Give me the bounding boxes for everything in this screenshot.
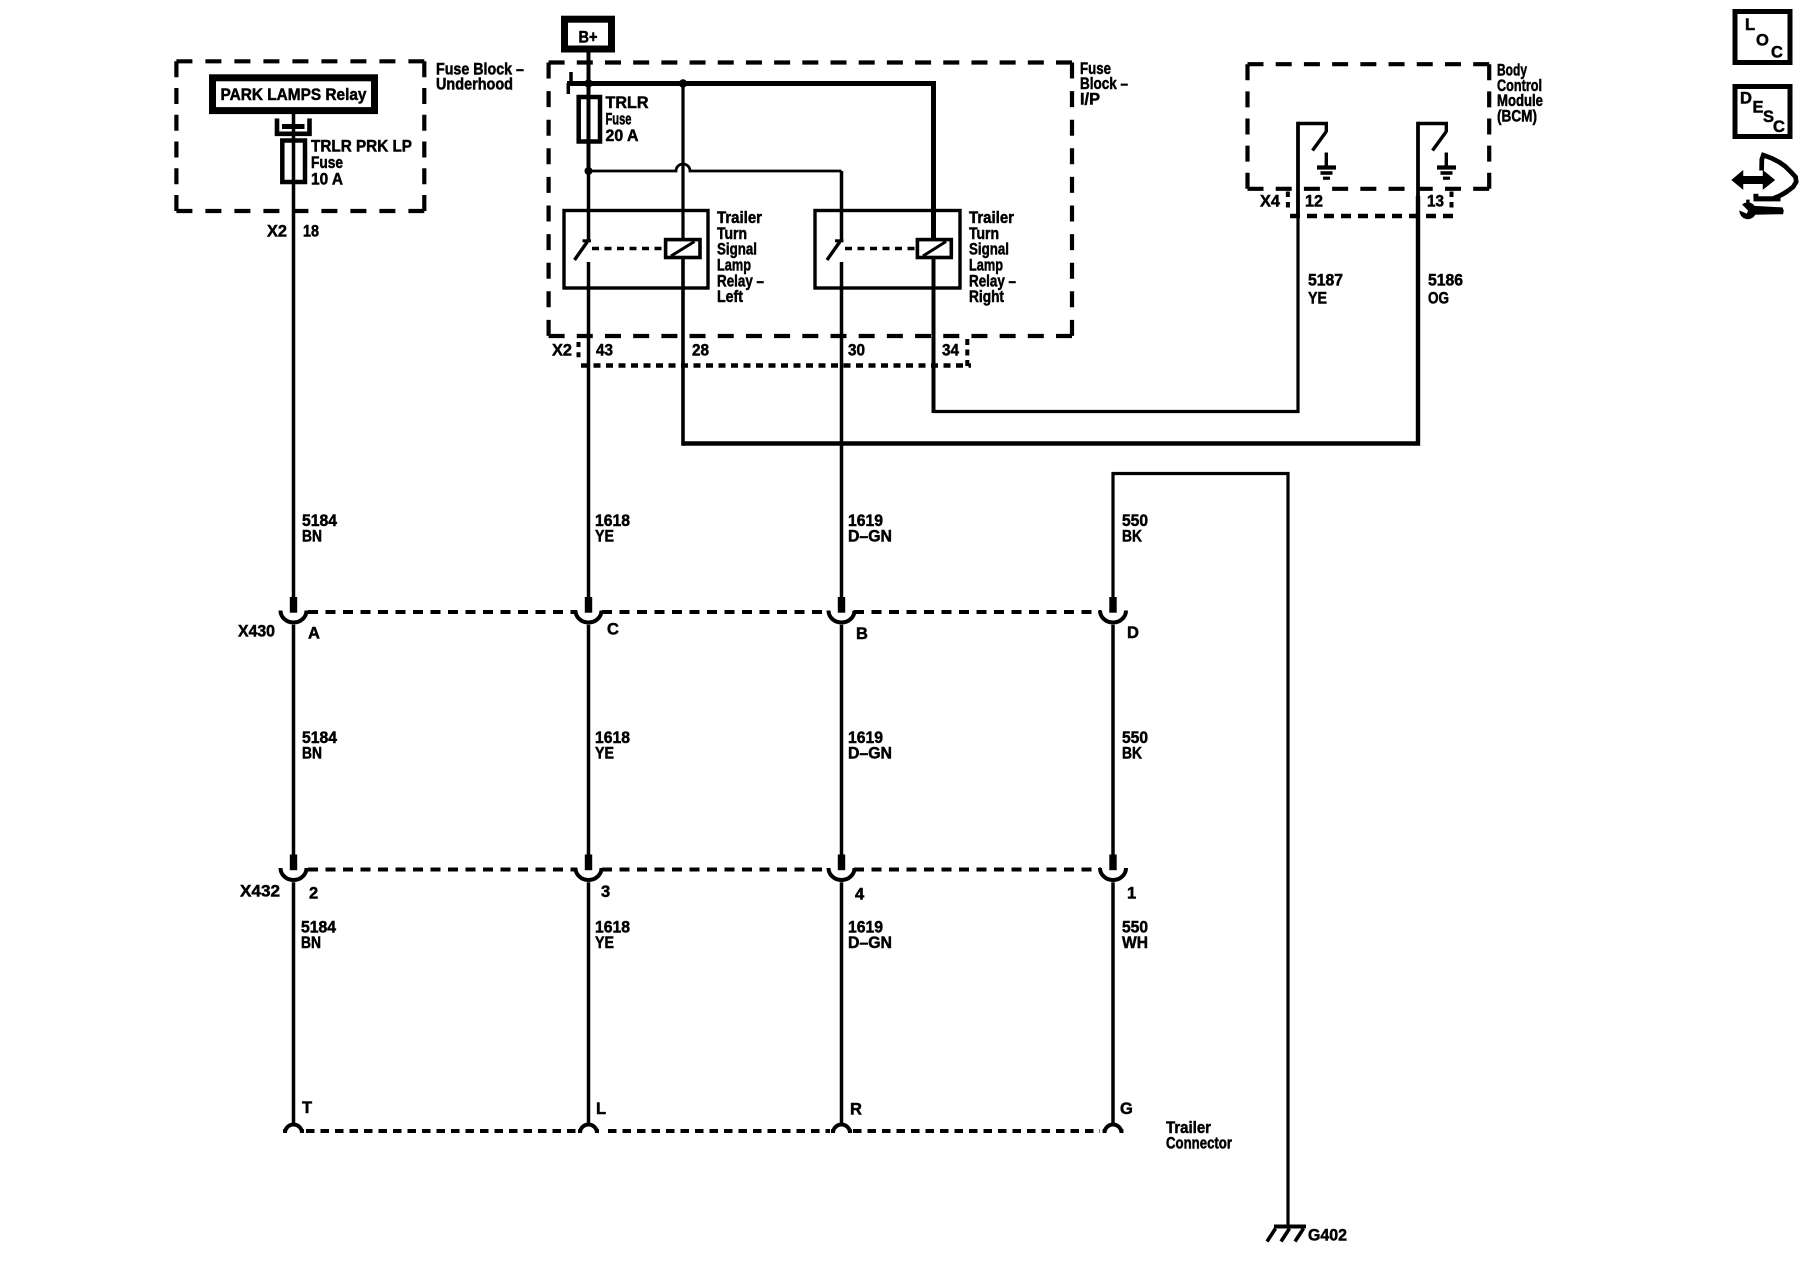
service icon vehicle foot bar bbox=[1754, 196, 1781, 201]
left relay switch output wire bbox=[587, 262, 591, 598]
BCM driver U1 (pin 12) stub wire bbox=[1296, 122, 1300, 217]
service icon wrench head bbox=[1739, 202, 1756, 219]
svg-text:TRLR PRK LP: TRLR PRK LP bbox=[311, 138, 412, 156]
svg-text:D–GN: D–GN bbox=[848, 745, 892, 763]
fuse F1 TRLR PRK LP 10A bbox=[282, 141, 305, 183]
svg-text:43: 43 bbox=[596, 342, 613, 360]
body control module dashed box bbox=[1248, 64, 1490, 189]
wire B+ down into fuse block bbox=[587, 48, 591, 171]
svg-text:Underhood: Underhood bbox=[436, 75, 513, 93]
node junction below fuse bbox=[585, 167, 593, 175]
BCM driver U1 switch blade bbox=[1313, 132, 1327, 151]
svg-text:A: A bbox=[308, 625, 320, 643]
left relay coil output wire bbox=[681, 258, 685, 446]
trailer row dashed line seg 2 bbox=[608, 1129, 830, 1133]
svg-text:1: 1 bbox=[1127, 885, 1136, 903]
wire from fuse to right relay switch with hop over coil wire bbox=[589, 164, 842, 171]
svg-text:C: C bbox=[607, 621, 619, 639]
connector X432 pin 1 (male pin) bbox=[1109, 855, 1116, 871]
fuse block underhood dashed box bbox=[176, 61, 424, 211]
BCM driver U1 top bar bbox=[1298, 122, 1328, 125]
svg-text:12: 12 bbox=[1305, 193, 1323, 211]
ground G402 symbol bbox=[1274, 1225, 1306, 1229]
svg-text:D: D bbox=[1740, 90, 1752, 108]
trailer connector terminal R (arch) bbox=[833, 1125, 850, 1134]
wire column2 X432 to trailer connector bbox=[587, 882, 591, 1124]
svg-text:YE: YE bbox=[595, 934, 614, 952]
right relay coil bbox=[917, 240, 951, 258]
X432 row dashed line seg 1 bbox=[308, 868, 577, 872]
right relay switch output wire bbox=[840, 262, 844, 598]
svg-text:BN: BN bbox=[301, 934, 321, 952]
svg-text:T: T bbox=[302, 1099, 312, 1117]
wire column4 X430 to X432 bbox=[1111, 625, 1115, 855]
right relay coil output wire bbox=[932, 258, 936, 414]
svg-text:C: C bbox=[1771, 44, 1783, 62]
trailer connector terminal L (arch) bbox=[580, 1125, 597, 1134]
svg-text:G: G bbox=[1120, 1100, 1133, 1118]
node junction at coil feed wire and bus bbox=[679, 79, 687, 87]
X432 row dashed line seg 2 bbox=[602, 868, 829, 872]
connector X432 pin 4 (female cup) bbox=[829, 868, 855, 880]
svg-text:5186: 5186 bbox=[1428, 272, 1463, 290]
BCM driver U2 top bar bbox=[1418, 122, 1448, 125]
svg-text:BK: BK bbox=[1122, 745, 1142, 763]
svg-text:B+: B+ bbox=[579, 29, 598, 47]
wire column3 X432 to trailer connector bbox=[840, 882, 844, 1124]
svg-text:2: 2 bbox=[309, 885, 318, 903]
X4 row bottom dashed line bbox=[1290, 214, 1454, 219]
in-line terminal hook at left end of bus bbox=[569, 72, 573, 84]
svg-text:BN: BN bbox=[302, 745, 322, 763]
svg-text:E: E bbox=[1753, 99, 1764, 117]
LOC reference box bbox=[1735, 12, 1790, 63]
svg-text:R: R bbox=[850, 1101, 862, 1119]
svg-text:X430: X430 bbox=[238, 623, 275, 641]
svg-text:D–GN: D–GN bbox=[848, 527, 892, 545]
wire column1 X432 to trailer connector bbox=[292, 882, 296, 1124]
terminal cup of PARK LAMPS relay output bbox=[277, 119, 310, 134]
svg-text:YE: YE bbox=[595, 745, 614, 763]
X432 row dashed line seg 3 bbox=[854, 868, 1101, 872]
service icon vehicle outline lower slope bbox=[1774, 192, 1788, 199]
trailer connector terminal T (arch) bbox=[285, 1125, 302, 1134]
svg-text:Fuse: Fuse bbox=[311, 154, 343, 172]
svg-text:28: 28 bbox=[692, 342, 709, 360]
X4 separator dashed vertical bbox=[1286, 192, 1290, 211]
wire 550 BK top loop to ground drop bbox=[1113, 474, 1288, 1228]
connector X430 pin A (male pin) bbox=[290, 597, 297, 613]
DESC reference box bbox=[1735, 87, 1790, 137]
fuse F2 TRLR Fuse 20 A bbox=[579, 97, 600, 142]
connector X430 pin C (male pin) bbox=[585, 597, 592, 613]
svg-text:C: C bbox=[1773, 118, 1785, 136]
svg-text:4: 4 bbox=[855, 886, 865, 904]
X4 right separator dashed vertical bbox=[1450, 192, 1454, 211]
left relay coil bbox=[666, 240, 700, 258]
X2 separator dashed vertical bbox=[577, 342, 581, 361]
wire down into right relay switch bbox=[840, 171, 844, 240]
wire 5187 YE from BCM pin 12 to right relay coil (via X2 pin 34) bbox=[934, 196, 1299, 412]
svg-text:BK: BK bbox=[1122, 527, 1142, 545]
connector X432 pin 2 (female cup) bbox=[281, 868, 307, 880]
connector X432 pin 4 (male pin) bbox=[838, 855, 845, 871]
wire 5186 OG from BCM pin 13 to left relay coil (via X2 pin 28) bbox=[683, 196, 1418, 444]
relay K2 Trailer Turn Signal Lamp Relay - Left (box) bbox=[564, 211, 708, 289]
relay K3 Trailer Turn Signal Lamp Relay - Right (box) bbox=[815, 211, 960, 289]
svg-text:Fuse: Fuse bbox=[606, 110, 632, 128]
svg-text:PARK LAMPS Relay: PARK LAMPS Relay bbox=[221, 86, 368, 104]
service icon vehicle outline bbox=[1762, 155, 1797, 194]
svg-text:Connector: Connector bbox=[1166, 1135, 1232, 1153]
svg-text:X4: X4 bbox=[1260, 193, 1281, 211]
wire column3 X430 to X432 bbox=[840, 625, 844, 855]
svg-text:D: D bbox=[1127, 624, 1139, 642]
svg-text:D–GN: D–GN bbox=[848, 934, 892, 952]
svg-text:YE: YE bbox=[595, 527, 614, 545]
svg-text:TRLR: TRLR bbox=[606, 94, 649, 112]
svg-text:10 A: 10 A bbox=[311, 171, 343, 189]
fuse block I/P dashed box bbox=[549, 63, 1072, 337]
svg-text:BN: BN bbox=[302, 527, 322, 545]
right relay switch contact tick bbox=[835, 239, 844, 242]
BCM internal ground (pin 13 driver) bbox=[1445, 153, 1448, 167]
svg-text:L: L bbox=[1745, 16, 1755, 34]
BCM driver U2 switch blade bbox=[1433, 132, 1447, 151]
svg-text:X2: X2 bbox=[267, 223, 287, 241]
BCM internal ground (pin 12 driver) bbox=[1325, 153, 1328, 167]
X430 row dashed line seg 3 bbox=[854, 610, 1101, 614]
trailer connector terminal G (arch) bbox=[1105, 1125, 1122, 1134]
connector X430 pin D (male pin) bbox=[1109, 597, 1116, 613]
svg-text:L: L bbox=[596, 1100, 606, 1118]
svg-text:X2: X2 bbox=[552, 342, 572, 360]
left relay switch blade bbox=[575, 242, 588, 261]
right relay actuation dashed link bbox=[845, 247, 916, 250]
svg-text:Right: Right bbox=[969, 288, 1004, 306]
connector X430 pin A (female cup) bbox=[281, 611, 307, 623]
connector X430 pin B (male pin) bbox=[838, 597, 845, 613]
left relay switch wire into box bbox=[587, 171, 591, 241]
right relay switch blade bbox=[827, 242, 840, 261]
wire bus drop to right relay coil (thick) bbox=[931, 84, 936, 241]
wire column2 X430 to X432 bbox=[587, 625, 591, 855]
left relay switch contact tick bbox=[583, 239, 592, 242]
svg-text:20 A: 20 A bbox=[606, 127, 639, 145]
terminal crossbar bbox=[282, 124, 305, 129]
svg-text:OG: OG bbox=[1428, 290, 1449, 308]
X430 row dashed line seg 2 bbox=[602, 610, 829, 614]
svg-text:13: 13 bbox=[1427, 193, 1444, 211]
trailer row dashed line seg 3 bbox=[853, 1129, 1100, 1133]
svg-text:B: B bbox=[856, 625, 868, 643]
svg-text:X432: X432 bbox=[240, 883, 280, 901]
BCM driver U2 contact nub bbox=[1445, 124, 1448, 133]
connector X432 pin 2 (male pin) bbox=[290, 855, 297, 871]
svg-text:WH: WH bbox=[1122, 934, 1148, 952]
X2 right separator dashed vertical bbox=[965, 339, 969, 366]
connector X432 pin 3 (male pin) bbox=[585, 855, 592, 871]
svg-text:34: 34 bbox=[942, 342, 960, 360]
relay K1 PARK LAMPS Relay (name box) bbox=[213, 78, 375, 111]
node junction at B+ wire and bus bbox=[584, 79, 592, 87]
wire column1 X430 to X432 bbox=[292, 625, 296, 855]
connector X432 pin 3 (female cup) bbox=[576, 868, 602, 880]
BCM driver U2 (pin 13) stub wire bbox=[1416, 122, 1420, 217]
connector X430 pin C (female cup) bbox=[576, 611, 602, 623]
connector X432 pin 1 (female cup) bbox=[1100, 868, 1126, 880]
svg-text:O: O bbox=[1756, 32, 1769, 50]
trailer row dashed line seg 1 bbox=[306, 1129, 578, 1133]
battery feed B+ box bbox=[565, 19, 612, 49]
wire from PARK LAMPS relay down column 1 bbox=[292, 111, 296, 598]
wire left relay coil feed from bus down bbox=[681, 84, 684, 241]
svg-text:5187: 5187 bbox=[1308, 272, 1343, 290]
BCM driver U1 contact nub bbox=[1325, 124, 1328, 133]
svg-text:Left: Left bbox=[717, 288, 743, 306]
svg-text:G402: G402 bbox=[1308, 1227, 1347, 1245]
wire column4 X432 to trailer connector bbox=[1111, 882, 1115, 1124]
service icon double arrow bbox=[1733, 172, 1775, 189]
left relay actuation dashed link bbox=[592, 247, 664, 250]
svg-text:(BCM): (BCM) bbox=[1497, 107, 1537, 125]
svg-text:I/P: I/P bbox=[1080, 90, 1100, 108]
svg-text:YE: YE bbox=[1308, 290, 1327, 308]
svg-text:3: 3 bbox=[601, 883, 610, 901]
connector X430 pin D (female cup) bbox=[1100, 611, 1126, 623]
X430 row dashed line seg 1 bbox=[308, 610, 577, 614]
X2 row bottom dashed line bbox=[581, 363, 971, 368]
connector X430 pin B (female cup) bbox=[829, 611, 855, 623]
service icon wrench handle bbox=[1753, 206, 1784, 215]
bus wire (thick) from hook to right relay coil feed bbox=[567, 81, 936, 86]
svg-text:30: 30 bbox=[848, 342, 865, 360]
svg-text:18: 18 bbox=[303, 223, 319, 241]
